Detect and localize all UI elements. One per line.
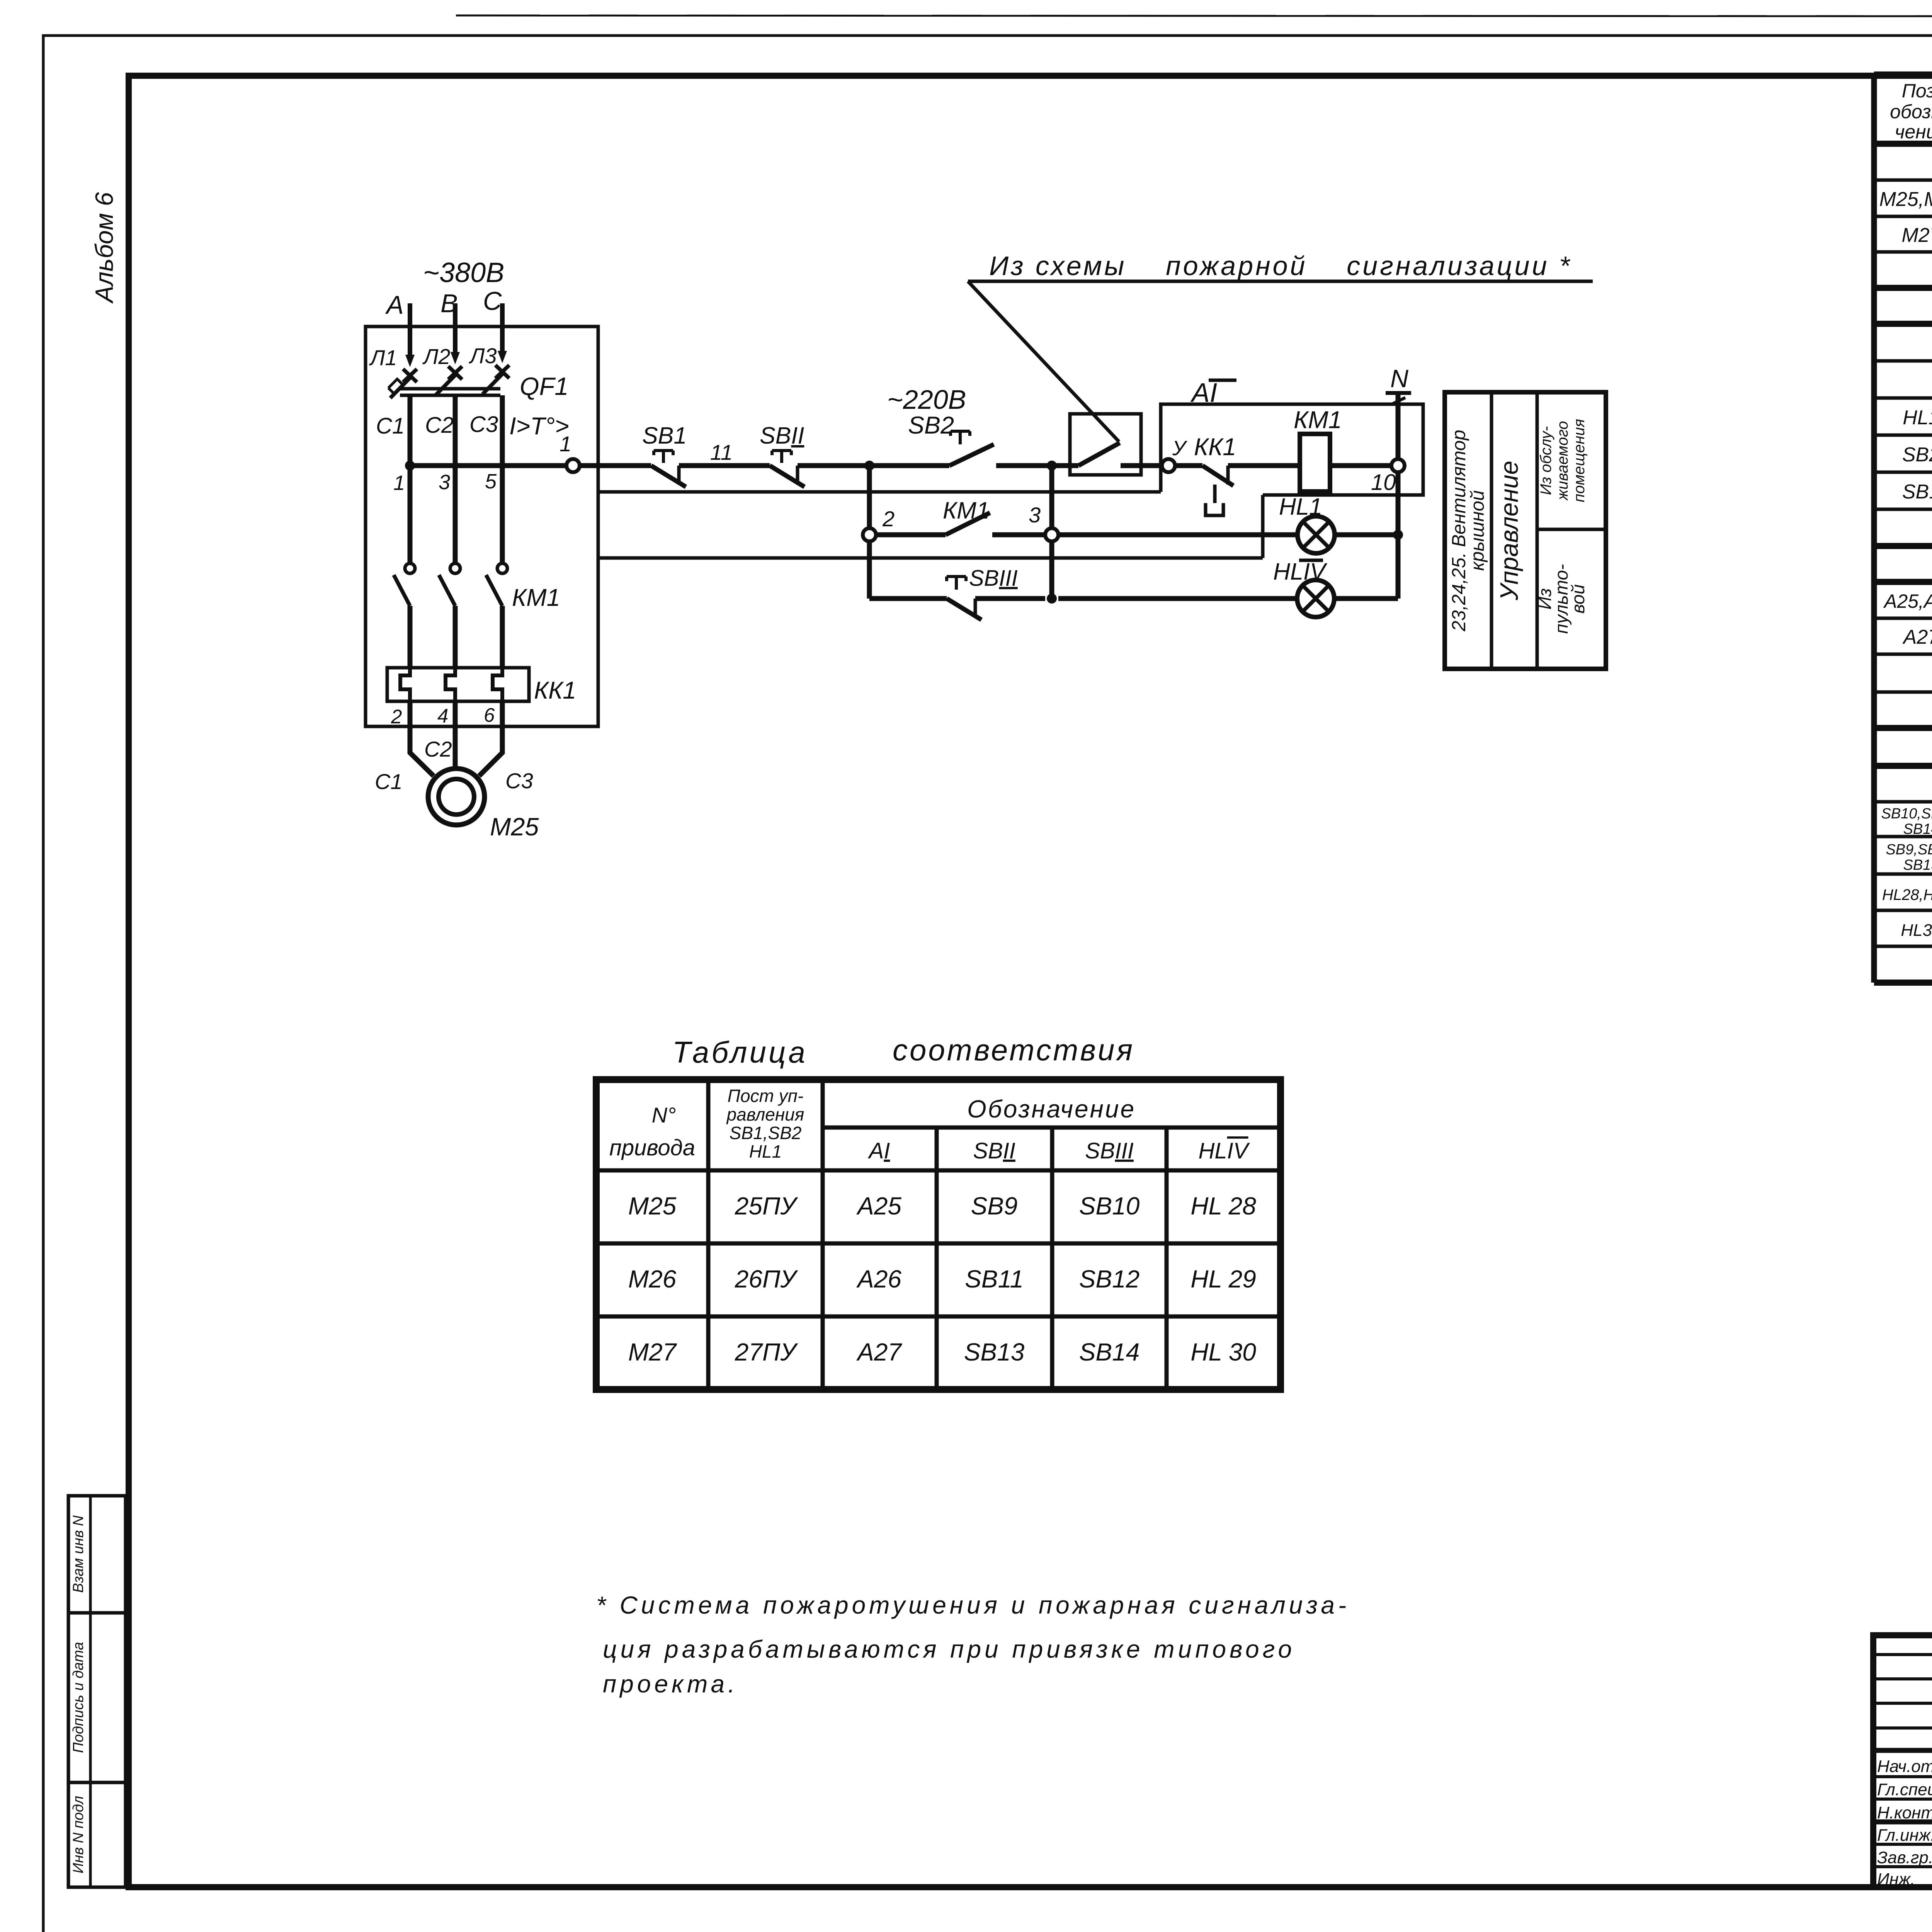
svg-text:С: С	[483, 287, 502, 316]
node У terminal circle	[1162, 437, 1187, 472]
svg-text:HL30: HL30	[1901, 921, 1932, 940]
svg-text:27ПУ: 27ПУ	[735, 1338, 799, 1366]
svg-text:HL28,HL29: HL28,HL29	[1882, 886, 1932, 903]
svg-text:5: 5	[485, 470, 497, 493]
node 3 terminal circle	[1029, 503, 1058, 541]
svg-text:Из обслу-: Из обслу-	[1537, 426, 1554, 495]
svg-text:В: В	[440, 289, 458, 318]
svg-text:КМ1: КМ1	[943, 497, 990, 524]
svg-text:Из схемы пожарной сигнал: Из схемы пожарной сигнализации *	[989, 251, 1572, 281]
svg-text:С3: С3	[505, 769, 533, 793]
svg-text:3: 3	[439, 471, 450, 494]
svg-text:HL1: HL1	[1903, 406, 1932, 429]
thermal relay KK1 heaters box	[387, 668, 576, 704]
svg-text:SB2: SB2	[908, 412, 954, 439]
component list table grid	[1874, 75, 1932, 983]
correspondence table grid	[596, 1080, 1281, 1389]
svg-text:SBII: SBII	[760, 422, 804, 449]
indicator lamp HLIV	[1273, 558, 1334, 617]
left margin label Альбом 6	[90, 192, 118, 304]
label ~380V supply	[423, 257, 504, 288]
svg-text:привода: привода	[609, 1135, 695, 1160]
destination annotation table	[1445, 392, 1606, 669]
motor leads to M25	[410, 701, 502, 776]
terminal labels 2 4 6	[391, 704, 495, 728]
paper top edge artifact	[456, 15, 1932, 16]
svg-text:* Система пожаротушения и: * Система пожаротушения и пожарная сигна…	[596, 1591, 1350, 1619]
svg-text:~380В: ~380В	[423, 257, 504, 288]
svg-text:Л1: Л1	[369, 345, 397, 370]
svg-text:SB9: SB9	[971, 1192, 1018, 1220]
contactor coil KM1	[1294, 406, 1342, 492]
svg-text:SBIII: SBIII	[969, 566, 1018, 591]
svg-text:помещения: помещения	[1571, 419, 1588, 502]
svg-text:АI: АI	[1190, 378, 1217, 408]
svg-text:QF1: QF1	[520, 372, 568, 400]
svg-text:SB1,SB2: SB1,SB2	[730, 1123, 802, 1143]
row HL30	[1901, 913, 1932, 941]
svg-text:4: 4	[437, 705, 448, 727]
svg-text:соответствия: соответствия	[893, 1033, 1134, 1067]
label AI	[1190, 378, 1236, 408]
QF1 trip bar (double line)	[400, 389, 500, 395]
label QF1	[520, 372, 568, 400]
svg-text:SB1: SB1	[1902, 481, 1932, 503]
annotation: from fire alarm scheme	[968, 251, 1593, 442]
svg-text:SB14: SB14	[1903, 821, 1932, 837]
junction dot SBIII row	[1047, 594, 1057, 604]
motor M25	[428, 769, 539, 841]
svg-text:SBIII: SBIII	[1085, 1138, 1134, 1163]
svg-text:М25: М25	[490, 813, 539, 841]
correspondence row М27	[628, 1338, 1256, 1366]
boundary wire upper (enclosure link)	[598, 490, 1161, 494]
svg-text:Альбом 6: Альбом 6	[90, 192, 118, 304]
node 2 terminal circle	[863, 507, 895, 541]
svg-text:SB13: SB13	[964, 1338, 1025, 1366]
row SB1 button	[1902, 477, 1932, 504]
svg-text:проекта.: проекта.	[603, 1670, 738, 1698]
vertical branch at node 3	[1047, 461, 1057, 599]
pole number labels 1 3 5	[393, 470, 497, 495]
svg-text:SB12: SB12	[1079, 1265, 1140, 1293]
svg-text:SB13: SB13	[1903, 857, 1932, 873]
svg-text:Л3: Л3	[469, 344, 497, 368]
svg-text:Взам инв N: Взам инв N	[70, 1515, 87, 1593]
wire lamp HLIV to neutral vertical	[1334, 596, 1398, 601]
svg-text:вой: вой	[1568, 584, 1588, 614]
row M25 M26 motor	[1879, 182, 1932, 212]
svg-text:АI: АI	[868, 1138, 890, 1163]
svg-text:Поз.: Поз.	[1902, 80, 1932, 102]
stop button SBII (NC)	[760, 422, 804, 487]
svg-text:23,24,25. Вентилятор: 23,24,25. Вентилятор	[1449, 430, 1469, 632]
svg-text:SB10,SB12,: SB10,SB12,	[1881, 806, 1932, 822]
svg-text:2: 2	[882, 507, 895, 531]
svg-text:Нач.отд.: Нач.отд.	[1877, 1757, 1932, 1776]
indicator lamp HL1	[1279, 493, 1335, 553]
svg-text:А27: А27	[1902, 626, 1932, 648]
svg-text:6: 6	[484, 704, 495, 726]
wire coil to node 10	[1330, 463, 1391, 468]
QF1 release latch	[388, 379, 403, 394]
footnote about fire extinguishing system	[596, 1591, 1350, 1698]
svg-text:Таблица: Таблица	[672, 1035, 808, 1069]
svg-text:N: N	[1390, 364, 1408, 393]
svg-text:обозна: обозна	[1890, 101, 1932, 122]
node 1 terminal circle	[410, 432, 580, 472]
QF1 pole conductors 1 3 5	[410, 395, 502, 563]
svg-text:SB1: SB1	[642, 422, 687, 449]
svg-text:чение: чение	[1895, 121, 1932, 143]
bottom row corner at node 2 branch	[869, 596, 947, 601]
start button SB2 (NO)	[908, 412, 994, 466]
neutral N terminal	[1386, 364, 1411, 405]
svg-text:3: 3	[1029, 503, 1041, 527]
svg-text:HL1: HL1	[749, 1141, 782, 1162]
wire to lamp HLIV	[1058, 596, 1297, 601]
svg-text:Л2: Л2	[422, 344, 451, 369]
svg-text:А27: А27	[856, 1338, 902, 1366]
boundary wire lower (enclosure link)	[598, 495, 1263, 558]
svg-text:А25,А26: А25,А26	[1883, 590, 1932, 612]
svg-text:1: 1	[560, 432, 571, 456]
row A25 A26 control station	[1883, 585, 1932, 613]
motor terminal labels C1 C2 C3	[375, 737, 533, 794]
junction dot lamp row / neutral	[1393, 530, 1403, 540]
wire from SB2 to fire-alarm contact box	[996, 463, 1070, 468]
svg-text:ция разрабатываются при: ция разрабатываются при привязке типовог…	[603, 1635, 1295, 1663]
svg-text:1: 1	[393, 471, 405, 495]
svg-text:Подпись и дата: Подпись и дата	[70, 1642, 87, 1753]
wire lamp HL1 to neutral	[1335, 532, 1398, 537]
svg-text:А: А	[385, 291, 404, 320]
svg-text:SB2: SB2	[1902, 444, 1932, 466]
terminal labels C1 C2 C3	[376, 412, 498, 439]
svg-text:Гл.спец: Гл.спец	[1877, 1780, 1932, 1799]
signature table roles and names	[1877, 1756, 1932, 1889]
stop button SBIII (NC)	[947, 566, 1045, 620]
svg-text:А26: А26	[856, 1265, 901, 1293]
svg-text:Обозначение: Обозначение	[967, 1095, 1136, 1123]
svg-text:Управление: Управление	[1495, 461, 1523, 601]
svg-text:С2: С2	[425, 413, 454, 438]
svg-text:25ПУ: 25ПУ	[735, 1192, 799, 1220]
svg-text:HL 28: HL 28	[1190, 1192, 1256, 1220]
row SB2 button	[1902, 440, 1932, 467]
wire from SBII to branch junction	[798, 463, 869, 468]
device AI boundary (right part)	[1161, 404, 1423, 495]
svg-text:Зав.гр.: Зав.гр.	[1877, 1848, 1932, 1867]
svg-text:живаемого: живаемого	[1554, 421, 1571, 501]
contactor KM1 main contacts	[394, 563, 560, 668]
svg-text:SB14: SB14	[1079, 1338, 1140, 1366]
node on phase A feeding control circuit	[405, 461, 415, 471]
svg-text:HLIV: HLIV	[1199, 1138, 1250, 1163]
phase A incoming line with arrow	[385, 291, 415, 367]
wire to start button SB2	[869, 463, 949, 468]
svg-text:SB9,SB11,: SB9,SB11,	[1886, 842, 1932, 858]
svg-text:КК1: КК1	[534, 677, 576, 704]
title block frame	[1873, 1635, 1932, 1887]
svg-text:HL 29: HL 29	[1190, 1265, 1256, 1293]
fire alarm contact box	[1070, 414, 1162, 475]
device A25 enclosure box (power part)	[366, 327, 598, 726]
svg-text:М27: М27	[1901, 224, 1932, 247]
svg-text:~220В: ~220В	[887, 384, 966, 415]
svg-text:10: 10	[1371, 470, 1396, 495]
label ~220V control voltage	[887, 384, 966, 415]
circuit breaker QF1 blades	[390, 374, 502, 398]
neutral vertical wire	[1396, 393, 1401, 599]
wire 11 between SB1 and SBII	[679, 440, 770, 466]
terminal labels L1 L2 L3	[369, 344, 497, 370]
phase B incoming line with arrow	[440, 289, 460, 364]
correspondence row М25	[628, 1192, 1256, 1220]
phase C incoming line with arrow	[483, 287, 507, 363]
table header Поз обозначение / Наименование / Кол / Примечание	[1890, 80, 1932, 143]
wire node 3 to lamp HL1	[1058, 532, 1298, 537]
svg-text:Н.контр: Н.контр	[1877, 1803, 1932, 1822]
title Таблица соответствия	[672, 1033, 1134, 1069]
label I> T°>	[509, 413, 569, 440]
svg-text:М25,М26: М25,М26	[1879, 188, 1932, 211]
svg-text:крышной: крышной	[1467, 490, 1488, 571]
svg-text:SB11: SB11	[965, 1265, 1024, 1293]
svg-text:М26: М26	[628, 1265, 677, 1293]
connection cross marks L1 L2 L3	[403, 365, 509, 382]
auxiliary contact KM1 (NO seal-in)	[876, 497, 1045, 535]
svg-text:SB10: SB10	[1079, 1192, 1140, 1220]
thermal contact KK1 (NC)	[1175, 434, 1300, 515]
svg-text:N°: N°	[652, 1103, 676, 1127]
svg-text:М25: М25	[628, 1192, 677, 1220]
svg-text:КМ1: КМ1	[1294, 406, 1342, 434]
svg-text:А25: А25	[856, 1192, 901, 1220]
svg-text:КМ1: КМ1	[512, 584, 560, 611]
seal-in branch vertical at node 2	[867, 470, 872, 599]
svg-text:26ПУ: 26ПУ	[735, 1265, 799, 1293]
svg-text:С2: С2	[424, 737, 452, 761]
svg-text:С3: С3	[469, 412, 498, 437]
svg-text:равления: равления	[726, 1104, 804, 1124]
row SB9 SB11 SB13	[1886, 840, 1932, 873]
row A27 settings	[1902, 621, 1932, 649]
svg-text:11: 11	[710, 440, 733, 464]
correspondence table headers	[609, 1086, 1250, 1163]
row SB10 SB12 SB14	[1881, 804, 1932, 837]
row M27 motor data	[1901, 218, 1932, 248]
row HL28 HL29 armature	[1882, 878, 1932, 905]
svg-text:Гл.инж.пр: Гл.инж.пр	[1877, 1826, 1932, 1845]
correspondence row М26	[628, 1265, 1256, 1293]
node 10 terminal circle	[1371, 459, 1405, 495]
svg-text:М27: М27	[628, 1338, 677, 1366]
wire from node 1 to SB1	[580, 463, 651, 468]
svg-text:С1: С1	[376, 413, 405, 439]
svg-text:Пост уп-: Пост уп-	[728, 1086, 804, 1106]
junction node (rung / seal-in branch)	[864, 461, 874, 471]
svg-text:Инж.: Инж.	[1877, 1870, 1915, 1889]
svg-text:SBII: SBII	[973, 1138, 1015, 1163]
left margin boxes with rotated labels	[68, 1496, 126, 1887]
svg-text:HL 30: HL 30	[1190, 1338, 1256, 1366]
svg-text:2: 2	[391, 706, 402, 728]
svg-text:КК1: КК1	[1194, 434, 1236, 461]
svg-text:С1: С1	[375, 769, 403, 794]
stop button SB1 (NC)	[642, 422, 687, 487]
row HL1 lamp	[1903, 403, 1932, 430]
svg-text:Инв N подл: Инв N подл	[70, 1796, 87, 1874]
svg-text:У: У	[1172, 437, 1187, 460]
